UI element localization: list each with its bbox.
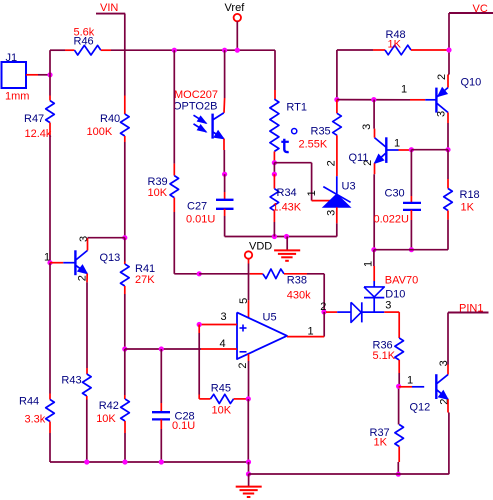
wire R48 vertical left [336, 50, 338, 100]
R47 value 12.4k [25, 128, 52, 140]
U5 pin 2 [237, 362, 249, 368]
R46 value 5.6k [74, 27, 95, 39]
power port VC [449, 3, 493, 15]
transistor Q13 [63, 250, 87, 275]
wire Q11 base [399, 149, 410, 151]
wire C27 bottom [225, 209, 337, 237]
capacitor C28 [152, 412, 170, 419]
svg-text:2: 2 [237, 362, 249, 368]
connector J1 [2, 52, 27, 88]
R48 value 1K [388, 39, 402, 51]
svg-text:10K: 10K [212, 405, 232, 417]
svg-text:4: 4 [220, 338, 226, 350]
wire R38 right [284, 274, 324, 312]
transistor Q11 [375, 137, 399, 163]
R36 label [373, 339, 393, 351]
junction bus opto [222, 48, 227, 53]
svg-text:0.01U: 0.01U [186, 214, 215, 226]
D10 pin 1 [363, 261, 375, 267]
svg-text:Vref: Vref [225, 2, 246, 14]
Q10 pin 1 [401, 83, 407, 95]
wire opto emitter [223, 139, 225, 175]
junction opto C27 [222, 172, 227, 177]
wire R37 bottom [397, 447, 400, 475]
svg-text:R42: R42 [99, 400, 119, 412]
junction pin3 [197, 322, 202, 327]
Q10 label [461, 76, 482, 88]
D10 value BAV70 [385, 275, 418, 287]
svg-text:OPTO2B: OPTO2B [173, 100, 217, 112]
wire R48 right [411, 49, 447, 51]
svg-text:1K: 1K [461, 201, 475, 213]
svg-text:R45: R45 [211, 383, 231, 395]
resistor R46 [75, 45, 101, 55]
resistor R39 [170, 176, 179, 198]
Q11 pin 3 [361, 124, 373, 130]
svg-text:1: 1 [394, 138, 400, 150]
C27 label [187, 201, 207, 213]
junction R37 rail [396, 472, 401, 477]
R48 label [386, 29, 406, 41]
wire Q11 collector [373, 100, 375, 138]
R38 value 430k [287, 289, 311, 301]
junction R41 R42 pin4 [122, 346, 127, 351]
R38 label [287, 275, 307, 287]
shunt reference U3 [323, 187, 351, 208]
wire pin3 node down [199, 325, 210, 399]
svg-text:J1: J1 [6, 52, 18, 64]
R35 value 2.55K [299, 139, 328, 151]
junction rail R42 [122, 459, 127, 464]
junction gnd net R34 [272, 234, 277, 239]
wire R35 top [336, 100, 338, 114]
Q11 label [349, 152, 369, 164]
junction R40 R41 [122, 235, 127, 240]
svg-text:430k: 430k [287, 289, 311, 301]
svg-text:0.022U: 0.022U [374, 213, 410, 225]
C30 value 0.022U [374, 213, 410, 225]
junction R48 VC [446, 47, 451, 52]
wire Q11 emitter [373, 163, 375, 249]
U5 output wire [287, 336, 324, 338]
junction R38 node [197, 271, 202, 276]
R18 label [460, 189, 480, 201]
svg-text:Q10: Q10 [461, 76, 482, 88]
R44 label [19, 396, 39, 408]
R45 value 10K [212, 405, 232, 417]
R35 label [311, 126, 331, 138]
svg-text:3: 3 [385, 299, 391, 311]
U5 label [263, 311, 277, 323]
junction bus R39 [172, 48, 177, 53]
Q12 label [410, 401, 431, 413]
resistor R37 [395, 425, 404, 447]
R41 value 27K [135, 274, 155, 286]
resistor R44 [46, 400, 55, 422]
wire R45 right [234, 398, 247, 400]
wire Q10 base row [337, 99, 425, 101]
wire U3 ref run [274, 163, 330, 201]
Q10 pin 2 [436, 74, 448, 80]
C27 value 0.01U [186, 214, 215, 226]
opto label OPTO2B [173, 100, 217, 112]
Q13 pin 2 [77, 275, 89, 281]
R42 value 10K [96, 413, 116, 425]
wire VIN vertical [124, 14, 126, 96]
svg-text:VC: VC [473, 3, 488, 15]
R34 label [277, 187, 297, 199]
svg-text:C27: C27 [187, 201, 207, 213]
opto label MOC207 [174, 89, 218, 101]
diode D10 top [364, 287, 384, 312]
svg-text:U3: U3 [342, 180, 356, 192]
C28 label [175, 411, 195, 423]
wire Vref to bus [236, 21, 238, 50]
wire C30 bottom [410, 210, 412, 250]
Q13 pin 3 [78, 236, 90, 242]
svg-text:R47: R47 [24, 113, 44, 125]
wire VC vertical [448, 13, 450, 75]
svg-text:R34: R34 [277, 187, 297, 199]
wire J1 to node [26, 74, 50, 76]
U5 pin 4 wire [125, 348, 237, 350]
svg-text:3: 3 [221, 311, 227, 323]
wire VC to Q10 emitter [448, 75, 449, 88]
wire R18 bottom [447, 211, 449, 250]
svg-text:C30: C30 [385, 187, 405, 199]
R18 value 1K [461, 201, 475, 213]
wire D10 pin1 [373, 250, 375, 287]
port Vref [225, 2, 246, 21]
wire to R34 [273, 174, 275, 189]
junction gnd net ground [284, 234, 289, 239]
svg-text:1: 1 [44, 252, 50, 264]
svg-text:Q13: Q13 [100, 252, 121, 264]
svg-text:3: 3 [326, 210, 338, 216]
wire R36 bottom [398, 360, 401, 425]
svg-text:100K: 100K [87, 126, 113, 138]
R36 value 5.1K [373, 350, 396, 362]
port VDD [245, 240, 272, 258]
wire U3 anode [336, 207, 338, 236]
svg-text:2: 2 [362, 160, 374, 166]
svg-text:12.4k: 12.4k [25, 128, 52, 140]
wire Q12 emitter [447, 399, 450, 474]
ground bottom [236, 474, 262, 497]
diode D10 left [351, 302, 384, 322]
resistor R45 [211, 394, 234, 403]
R44 value 3.3k [25, 413, 46, 425]
svg-text:3: 3 [436, 111, 448, 117]
wire R40 to Q13 collector node [124, 136, 126, 238]
junction rail mid [246, 459, 251, 464]
R43 label [61, 374, 81, 386]
Q11 pin 1 [394, 138, 400, 150]
U5 pin 2 wire [248, 354, 250, 399]
wire R41 to pin4 node [124, 286, 126, 349]
junction Q11 C30 [409, 147, 414, 152]
RT1 t symbol [281, 129, 297, 153]
resistor R36 [395, 338, 404, 360]
wire C28 bottom [160, 419, 162, 462]
svg-text:R43: R43 [61, 374, 81, 386]
C30 label [385, 187, 405, 199]
R39 value 10K [148, 187, 168, 199]
wire R39 bottom [174, 198, 199, 274]
D10 pin 3 [385, 299, 391, 311]
svg-text:3: 3 [361, 124, 373, 130]
C28 value 0.1U [172, 420, 195, 432]
wire Q11 base node to R18 node [411, 149, 448, 151]
svg-text:3: 3 [438, 360, 450, 366]
svg-text:2: 2 [325, 160, 337, 166]
svg-text:10K: 10K [96, 413, 116, 425]
svg-text:R18: R18 [460, 189, 480, 201]
junction C30 bottom [409, 247, 414, 252]
wire Q13 base [50, 262, 63, 264]
svg-text:1K: 1K [388, 39, 402, 51]
wire R42 to rail [124, 421, 126, 462]
R39 label [148, 176, 168, 188]
resistor R42 [121, 399, 130, 421]
wire to R47 [49, 75, 51, 101]
wire R45 node to rail [247, 399, 249, 462]
wire D10 pin2 lead [326, 311, 351, 313]
R37 value 1K [374, 436, 388, 448]
svg-text:1: 1 [363, 261, 375, 267]
wire R47 to Q13 base node [49, 123, 51, 263]
wire R41 node to R38 [173, 50, 175, 175]
RT1 label [286, 101, 307, 113]
R46 label [74, 36, 94, 48]
wire Q10 collector [447, 113, 449, 150]
capacitor C27 [216, 200, 234, 209]
svg-text:1K: 1K [374, 436, 388, 448]
wire C28 top [160, 349, 162, 412]
wire bus corner up [50, 50, 75, 75]
svg-text:1: 1 [306, 190, 318, 196]
svg-text:1.43K: 1.43K [272, 202, 301, 214]
svg-text:BAV70: BAV70 [385, 275, 418, 287]
junction Q11 D10 [371, 247, 376, 252]
wire rail mid vertical [248, 462, 250, 474]
R40 value 100K [87, 126, 113, 138]
svg-text:PIN1: PIN1 [459, 302, 483, 314]
junction R45 [246, 396, 251, 401]
junction R48 R35 [334, 97, 339, 102]
U5 pin 3 wire [201, 324, 237, 326]
svg-text:1: 1 [308, 325, 314, 337]
junction Q13 base [47, 260, 52, 265]
svg-text:2: 2 [436, 74, 448, 80]
wire PIN1 vertical [447, 313, 449, 375]
Q10 pin 3 [436, 111, 448, 117]
wire RT1 bottom [273, 151, 275, 162]
resistor R41 [121, 264, 130, 286]
power port PIN1 [448, 302, 489, 314]
resistor R34 [270, 189, 279, 211]
transistor Q12 [436, 374, 448, 399]
junction base row Q11 [371, 97, 376, 102]
junction U5 output [321, 309, 326, 314]
wire Q13 collector [88, 238, 125, 251]
svg-text:R38: R38 [287, 275, 307, 287]
junction bus Vref [235, 48, 240, 53]
wire ground rail right [249, 473, 449, 475]
junction rail R43 [84, 459, 89, 464]
svg-text:5.1K: 5.1K [373, 350, 396, 362]
junction pin4 C28 [159, 346, 164, 351]
svg-text:2.55K: 2.55K [299, 139, 328, 151]
junction rail2 left [246, 471, 251, 476]
svg-text:1: 1 [407, 374, 413, 386]
R34 value 1.43K [272, 202, 301, 214]
wire R48 left [337, 49, 385, 51]
svg-text:VIN: VIN [100, 2, 118, 14]
svg-text:R40: R40 [100, 113, 120, 125]
J1 value 1mm [5, 91, 29, 103]
wire R43 to rail [86, 396, 88, 462]
junction R36 Q12 [396, 384, 401, 389]
Q13 label [100, 252, 121, 264]
Q12 pin 2 [439, 399, 451, 405]
wire bus [101, 49, 275, 51]
svg-text:R44: R44 [19, 396, 39, 408]
wire ground rail left [50, 461, 249, 463]
svg-text:1: 1 [401, 83, 407, 95]
junction RT1 C27 R34 [272, 172, 277, 177]
wire RT1 node down [273, 163, 275, 175]
transistor Q10 [425, 88, 448, 113]
wire R18 top [447, 150, 449, 189]
wire bus down to RT1 [274, 50, 276, 99]
svg-text:1mm: 1mm [5, 91, 29, 103]
wire VIN to R40 [124, 96, 126, 115]
wire to R41 [124, 238, 126, 264]
wire R34 bottom [273, 211, 275, 237]
U3 pin 3 [326, 210, 338, 216]
wire C27 top [224, 174, 226, 200]
wire R38 left [199, 273, 263, 275]
power port VIN [96, 2, 125, 14]
junction J1 node [47, 72, 52, 77]
Q11 pin 2 [362, 160, 374, 166]
R42 label [99, 400, 119, 412]
R40 label [100, 113, 120, 125]
U5 pin 1 [308, 325, 314, 337]
wire bottom net [374, 249, 448, 251]
wire R35 to U3 [336, 135, 338, 194]
wire bus to opto collector [223, 50, 226, 113]
resistor R35 [333, 113, 342, 135]
U5 pin 3 [221, 311, 227, 323]
junction rail C28 [159, 459, 164, 464]
U5 pin 4 [220, 338, 226, 350]
U3 label [342, 180, 356, 192]
wire node to R44 [49, 263, 51, 400]
junction RT1 U3ref [272, 160, 277, 165]
optocoupler U-opto MOC207 phototransistor [194, 113, 224, 139]
resistor R38 [263, 269, 284, 279]
svg-text:10K: 10K [148, 187, 168, 199]
R41 label [135, 263, 155, 275]
svg-text:5: 5 [238, 298, 250, 304]
svg-text:U5: U5 [263, 311, 277, 323]
wire to R42 [124, 349, 126, 399]
U5 pin 5 [238, 298, 250, 304]
D10 pin 2 [320, 301, 326, 313]
wire R44 to rail [49, 422, 51, 463]
wire C30 top [410, 150, 412, 203]
ground [274, 237, 300, 261]
R45 label [211, 383, 231, 395]
svg-text:Q12: Q12 [410, 401, 431, 413]
U3 pin 1 [306, 190, 318, 196]
Q12 pin 1 [407, 374, 413, 386]
svg-text:R46: R46 [74, 36, 94, 48]
junction Q10 R18 [445, 147, 450, 152]
wire Q12 base [399, 386, 425, 388]
svg-text:MOC207: MOC207 [174, 89, 218, 101]
svg-text:VDD: VDD [249, 240, 272, 252]
op-amp U5 [237, 312, 287, 359]
resistor R47 [46, 101, 55, 123]
U3 pin 2 [325, 160, 337, 166]
svg-text:R35: R35 [311, 126, 331, 138]
svg-text:R39: R39 [148, 176, 168, 188]
R47 label [24, 113, 44, 125]
resistor R18 [444, 189, 453, 211]
resistor R43 [83, 374, 92, 396]
Q12 pin 3 [438, 360, 450, 366]
resistor R40 [121, 114, 130, 136]
svg-text:RT1: RT1 [286, 101, 307, 113]
resistor R48 [385, 45, 411, 55]
wire Q13 emitter [86, 274, 88, 374]
thermistor RT1 [270, 99, 279, 151]
svg-text:0.1U: 0.1U [172, 420, 195, 432]
wire output vertical [323, 312, 325, 337]
wire VDD to U5 pin5 [248, 259, 250, 318]
svg-text:2: 2 [320, 301, 326, 313]
D10 label [385, 288, 405, 300]
svg-text:3.3k: 3.3k [25, 413, 46, 425]
svg-text:27K: 27K [135, 274, 155, 286]
wire D10 pin3 [384, 312, 399, 338]
Q13 pin 1 [44, 252, 50, 264]
R37 label [370, 427, 390, 439]
capacitor C30 [403, 203, 421, 210]
